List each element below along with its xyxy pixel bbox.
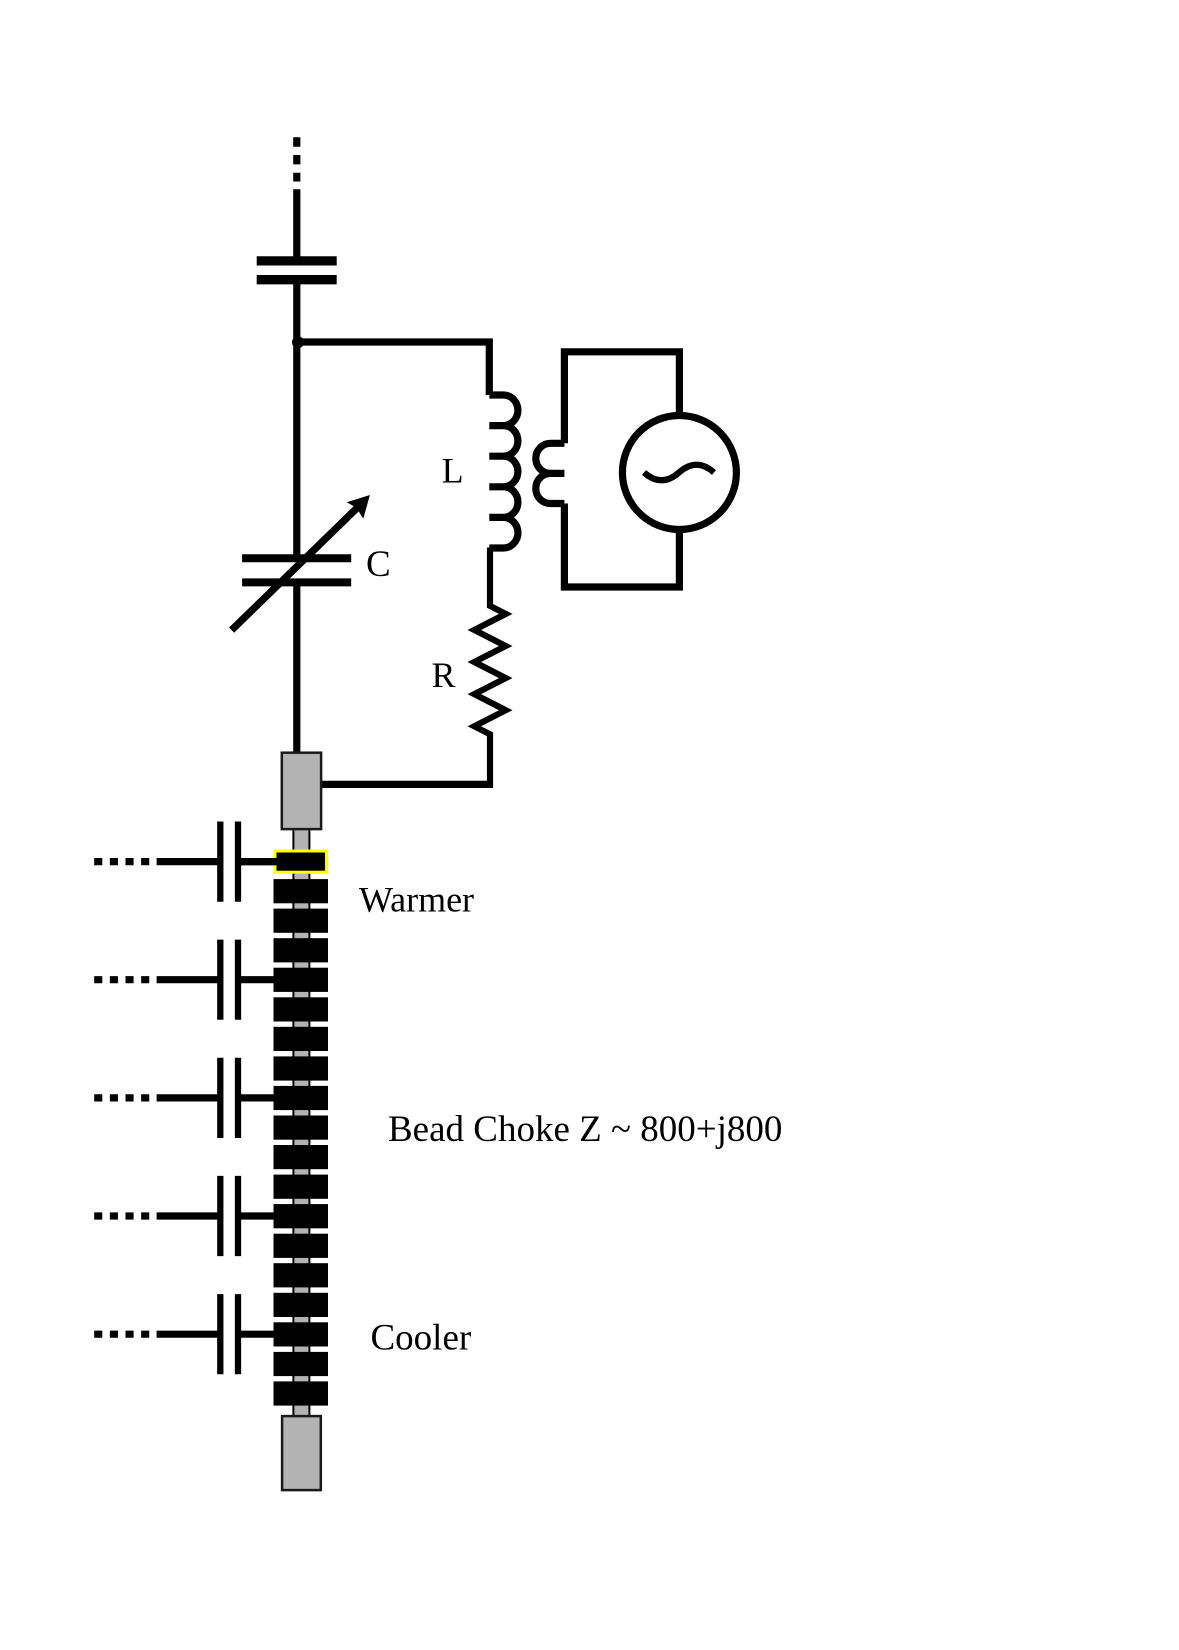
svg-text:Bead Choke Z ~ 800+j800: Bead Choke Z ~ 800+j800	[388, 1109, 782, 1150]
svg-text:R: R	[432, 655, 456, 695]
svg-text:Cooler: Cooler	[371, 1318, 472, 1359]
svg-text:L: L	[442, 451, 464, 491]
svg-text:C: C	[366, 544, 391, 585]
svg-text:Warmer: Warmer	[359, 879, 474, 919]
